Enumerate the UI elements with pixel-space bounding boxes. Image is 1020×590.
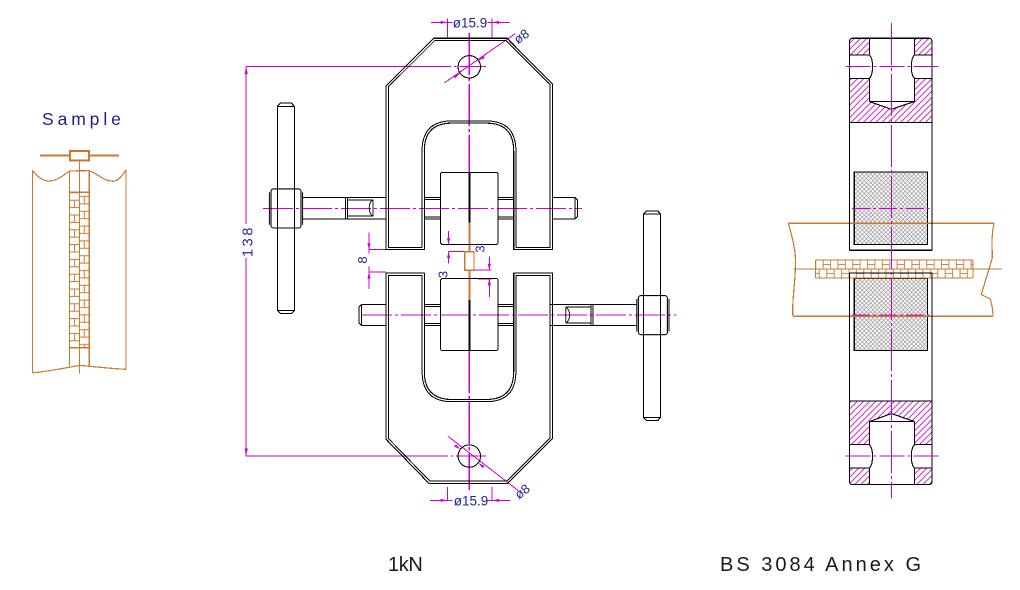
fabric top line [788, 222, 994, 224]
svg-text:ø15.9: ø15.9 [454, 493, 489, 508]
svg-text:ø8: ø8 [512, 481, 533, 502]
sample pull link [79, 161, 81, 172]
lower clamp outer contour [386, 273, 552, 483]
138 dimension line [245, 66, 247, 456]
sample slider box [465, 252, 474, 271]
upper block slot line [469, 173, 471, 223]
lower left stub [359, 305, 386, 326]
top pin centerline [846, 65, 940, 67]
bottom block hatch areas [850, 401, 932, 485]
top block divider lines [850, 55, 932, 122]
upper screw inner sleeve [348, 200, 373, 216]
lower screw tip segment [591, 305, 593, 326]
upper screw centerline [263, 208, 582, 210]
fabric sample band (orange) [788, 223, 1002, 316]
sample strip in jaws (orange) [465, 222, 474, 299]
svg-text:Sample: Sample [42, 109, 125, 129]
zipper teeth end rung [70, 347, 90, 349]
upper jaw pads [424, 197, 440, 219]
top hole horizontal centerline + 138 extension top [246, 65, 486, 67]
zipper teeth start rung [70, 191, 90, 193]
lower clamp hole [458, 445, 480, 467]
dimension 8 (jaw gap) [369, 233, 386, 289]
zipper teeth texture [815, 260, 973, 278]
sample slider box [70, 151, 89, 161]
bottom slot [870, 468, 915, 485]
upper T-handle bar [277, 103, 294, 313]
upper screw tip arc [369, 200, 373, 216]
lower screw shaft [359, 305, 637, 326]
sample bottom pull line [79, 365, 81, 373]
upper clamp hole [458, 56, 480, 78]
grip blocks (crosshatched) [854, 172, 927, 350]
vertical centerline lower [468, 351, 470, 490]
dimension 3 (right) [474, 257, 491, 297]
bottom hole horizontal centerline + 138 extension bottom [246, 455, 486, 457]
zipper tape rails [70, 171, 90, 366]
bottom hole and cone [869, 414, 914, 445]
svg-text:BS 3084 Annex G: BS 3084 Annex G [720, 554, 924, 576]
upper screw tip segment [346, 197, 348, 219]
svg-text:138: 138 [240, 225, 256, 257]
section magenta centerlines [846, 23, 940, 499]
fabric left edge [31, 170, 33, 372]
lower body [850, 273, 932, 485]
upper screw hub [269, 189, 302, 228]
zipper teeth band rails [815, 260, 973, 278]
138 dim arrows [245, 67, 248, 456]
lower jaw grip block [441, 279, 499, 351]
section body outline [850, 38, 932, 484]
zipper teeth texture [70, 192, 90, 347]
magenta centerlines [246, 33, 676, 490]
svg-text:3: 3 [435, 271, 450, 278]
top slot waist curves [869, 55, 914, 78]
lower T-handle bar [644, 211, 661, 421]
lower grip centerline [852, 314, 930, 316]
lower clamp inner contour [388, 275, 550, 481]
svg-text:ø15.9: ø15.9 [453, 15, 488, 30]
upper body [850, 38, 932, 250]
sample clamp bar [40, 155, 119, 157]
dimension 3 (left) [441, 231, 465, 263]
fabric top wavy edge [32, 170, 126, 181]
lower screw inner sleeve [566, 307, 591, 323]
fabric right edge [125, 170, 127, 369]
fabric right break [981, 223, 994, 316]
bottom pin centerline [846, 455, 940, 457]
bottom block divider lines [850, 401, 932, 468]
upper grip centerline [852, 208, 930, 210]
upper jaw grip block [441, 172, 499, 244]
top hole and cone [869, 78, 914, 109]
upper clamp outer contour [386, 38, 552, 249]
bottom slot waist curves [869, 445, 914, 468]
vertical centerline upper [468, 33, 470, 172]
sample tape line [469, 222, 471, 299]
lower screw tip arc [566, 307, 570, 323]
lower screw centerline [362, 314, 677, 316]
zipper center line [794, 268, 1002, 270]
upper clamp inner contour [388, 40, 550, 247]
top slot [870, 38, 915, 55]
svg-text:ø8: ø8 [511, 26, 532, 47]
fabric bottom wavy edge [32, 365, 126, 372]
svg-text:8: 8 [355, 256, 370, 263]
top block hatch areas [850, 38, 932, 122]
upper screw shaft [302, 197, 577, 219]
fabric left break [788, 223, 795, 316]
dimension ø8 top leader [444, 34, 515, 83]
dimension ø15.9 top [431, 18, 510, 37]
dimension ø15.9 bottom [430, 487, 510, 501]
upper right stub [552, 197, 577, 218]
fabric bottom line [793, 315, 993, 317]
svg-text:1kN: 1kN [388, 554, 422, 576]
vertical centerline [890, 23, 892, 499]
lower screw hub [637, 296, 669, 335]
dimension ø8 bottom leader [448, 436, 519, 491]
lower jaw pads [424, 305, 440, 326]
lower block slot line [469, 300, 471, 350]
